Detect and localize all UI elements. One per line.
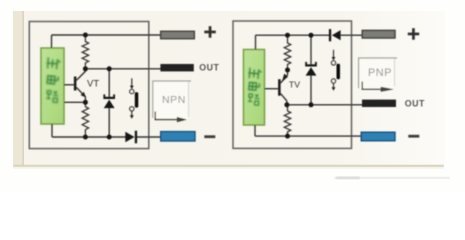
terminal block - (blue) right — [361, 132, 395, 141]
switch contact S2 — [331, 50, 340, 91]
label 主 (rotated) — [248, 68, 262, 80]
zener diode D3 — [305, 35, 317, 105]
NPN label box — [153, 81, 191, 118]
node: R2 bottom junction on - rail — [83, 135, 88, 140]
diode D4 (series, top rail) — [329, 29, 341, 41]
node: D3 top junction on + rail — [309, 33, 314, 38]
wire: top +rail to terminal — [52, 34, 161, 36]
label 主 (rotated) — [46, 57, 61, 70]
resistor R3 — [284, 35, 290, 70]
node: D1 bottom junction on - rail — [107, 135, 112, 140]
node: TV collector / R4 / OUT row junction — [284, 102, 289, 107]
arrow under NPN box — [155, 112, 187, 123]
plus sign right — [408, 33, 419, 36]
wire: bottom rail left of diode — [52, 136, 126, 138]
node: R4 bottom junction on - rail — [285, 134, 290, 139]
terminal block OUT (black) left — [160, 64, 193, 71]
wire: base of VT — [64, 84, 74, 86]
svg-text:VT: VT — [87, 79, 99, 90]
diode D2 (series, bottom rail) — [125, 131, 137, 144]
node: D3 bottom junction on OUT row — [309, 102, 314, 107]
left tan strip — [13, 11, 24, 166]
zener diode D1 — [103, 69, 115, 137]
wire: base of TV — [265, 88, 279, 90]
svg-text:OUT: OUT — [405, 99, 425, 109]
wire: green box top drop — [255, 35, 257, 49]
main-circuit block (green) left — [41, 48, 64, 124]
transistor TV — [278, 70, 288, 105]
cream panel — [13, 11, 445, 166]
svg-text:OUT: OUT — [199, 62, 219, 72]
resistor R1 — [82, 35, 88, 69]
main-circuit block (green) right — [244, 50, 265, 126]
enclosure box left — [29, 22, 149, 149]
terminal block + (gray) right — [362, 30, 395, 38]
label 电 (rotated) — [46, 75, 58, 84]
node: R1 top junction on + rail — [83, 33, 88, 38]
wire: green box bottom drop — [254, 125, 256, 136]
panel bottom edge — [13, 165, 444, 167]
node: D1 top junction on OUT row — [107, 66, 112, 71]
wire: top rail to + terminal — [341, 34, 363, 36]
svg-text:TV: TV — [289, 80, 300, 90]
minus sign right — [408, 135, 419, 138]
svg-text:PNP: PNP — [368, 67, 392, 79]
resistor R4 — [284, 105, 290, 136]
node: R1 / VT collector / OUT row junction — [83, 66, 88, 71]
label 电 (rotated) — [248, 82, 260, 91]
PNP label box — [359, 58, 397, 89]
page background — [0, 0, 465, 192]
wire: green box bottom drop — [51, 124, 53, 137]
switch contact S1 — [130, 78, 139, 118]
terminal block - (blue) left — [161, 132, 195, 141]
plus sign left — [204, 31, 216, 34]
wire: OUT row — [85, 68, 160, 70]
wire: bottom rail to terminal — [136, 136, 160, 138]
node: VT emitter / R2 junction — [83, 100, 88, 105]
wire: green box top to +rail — [51, 35, 53, 48]
terminal block OUT (black) right — [362, 100, 396, 107]
minus sign left — [204, 135, 215, 138]
svg-text:NPN: NPN — [162, 94, 186, 106]
wire: OUT row right — [287, 104, 362, 106]
bottom right smudge — [334, 177, 450, 179]
wire: emitter row from green box — [64, 101, 85, 103]
node: R3 / TV emitter junction — [285, 68, 290, 73]
label 路 (rotated) — [46, 90, 59, 103]
transistor VT — [74, 69, 86, 103]
node: R3 top junction on + rail — [285, 33, 290, 38]
wire: top rail left of diode — [256, 34, 330, 36]
label 路 (rotated) — [248, 93, 260, 105]
resistor R2 — [82, 102, 88, 137]
wire: bottom rail to - terminal — [255, 135, 361, 137]
enclosure box right — [233, 21, 352, 148]
arrow under PNP box — [362, 82, 394, 92]
terminal block + (gray) left — [161, 31, 195, 38]
